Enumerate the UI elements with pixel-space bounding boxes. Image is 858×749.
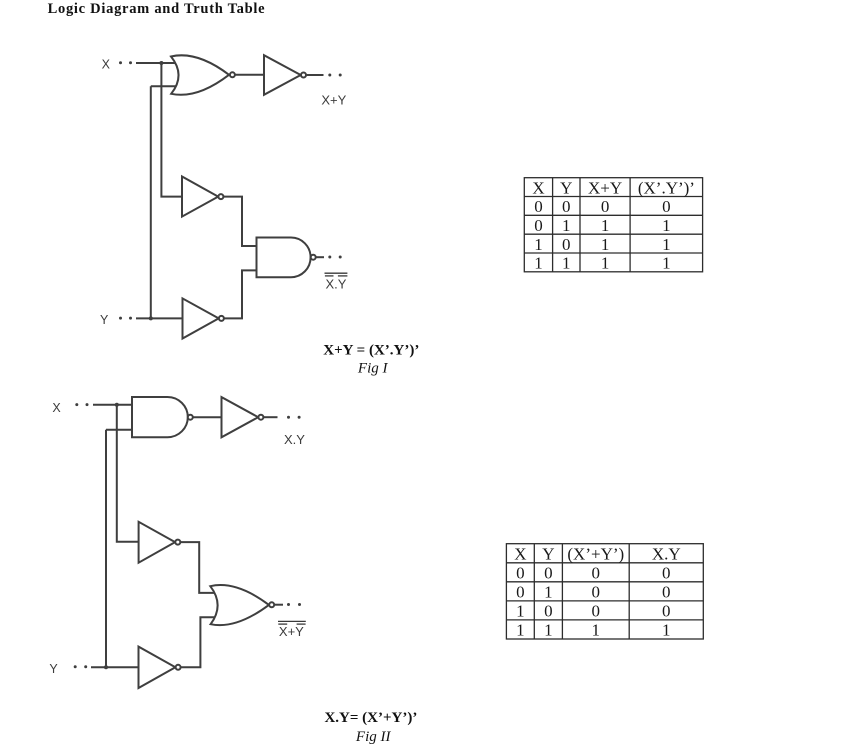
svg-text:0: 0 <box>601 197 610 216</box>
wire inverter U4 output to NAND bottom input <box>224 270 256 318</box>
junction Y Fig I <box>149 316 153 320</box>
input dots Y Fig I <box>119 317 122 320</box>
wire NOR lower input horizontal <box>151 85 179 87</box>
svg-text:0: 0 <box>662 583 671 602</box>
svg-text:Y: Y <box>49 662 58 676</box>
svg-text:1: 1 <box>562 254 571 273</box>
wire NOR2 output <box>274 604 283 606</box>
bubble U7 <box>175 540 180 545</box>
junction X/NOR Fig I <box>159 61 163 65</box>
wire Y to NOR vertical <box>150 86 152 318</box>
inverter U4 (bottom Fig I) <box>183 298 219 338</box>
svg-text:1: 1 <box>534 254 543 273</box>
svg-text:1: 1 <box>601 254 610 273</box>
NAND gate G2 <box>257 238 311 278</box>
svg-text:1: 1 <box>544 583 553 602</box>
wire inverter U6 output <box>264 416 278 418</box>
wire Y input Fig I <box>136 317 183 319</box>
NAND gate G3 (Fig II) <box>132 397 188 437</box>
svg-text:X+Y: X+Y <box>279 624 304 639</box>
wire X branch to inverter U7 <box>117 405 139 542</box>
output dots X.Y Fig II <box>287 416 290 419</box>
svg-text:0: 0 <box>592 602 601 621</box>
bubble G1 <box>230 72 235 77</box>
svg-text:1: 1 <box>544 621 553 640</box>
wire Y input Fig II <box>91 666 139 668</box>
wire inverter U7 output to NOR2 top input <box>181 542 215 593</box>
svg-text:1: 1 <box>516 621 525 640</box>
truth table 1 text <box>532 178 695 272</box>
inverter U3 (top Fig I) <box>264 55 301 95</box>
truth table 2 text <box>514 544 680 639</box>
svg-text:X+Y = (X’.Y’)’: X+Y = (X’.Y’)’ <box>323 343 419 359</box>
output dots X+Y <box>328 74 331 77</box>
truth table 2 grid <box>506 544 703 639</box>
wire NAND output <box>316 256 324 258</box>
svg-text:0: 0 <box>662 563 671 582</box>
input dots Y Fig II <box>74 665 77 668</box>
svg-text:0: 0 <box>562 197 571 216</box>
svg-text:0: 0 <box>516 563 525 582</box>
wire NAND2 output to inverter U6 <box>193 416 222 418</box>
svg-text:1: 1 <box>601 235 610 254</box>
overline X bar Fig II label <box>278 623 287 625</box>
inverter U2 (middle Fig I) <box>182 177 218 217</box>
bubble U3 <box>301 73 306 78</box>
svg-text:Logic Diagram and Truth Table: Logic Diagram and Truth Table <box>48 1 266 17</box>
inverter U6 (top Fig II) <box>222 397 259 437</box>
svg-text:(X’+Y’): (X’+Y’) <box>567 544 624 563</box>
svg-text:X: X <box>514 544 526 563</box>
overline Y bar Fig I label <box>338 275 348 277</box>
svg-text:X.Y= (X’+Y’)’: X.Y= (X’+Y’)’ <box>324 710 417 726</box>
svg-text:1: 1 <box>534 235 543 254</box>
bubble G2 <box>311 255 316 260</box>
wire inverter U8 output to NOR2 bottom input <box>181 617 214 667</box>
svg-text:1: 1 <box>662 216 671 235</box>
wire X branch to inverter U2 <box>161 63 182 197</box>
svg-text:1: 1 <box>516 602 525 621</box>
svg-text:1: 1 <box>562 216 571 235</box>
overline full bar Fig I label <box>325 272 348 274</box>
wire Y to NAND2 vertical <box>105 430 107 668</box>
junction Y Fig II <box>104 665 108 669</box>
svg-text:X+Y: X+Y <box>321 92 346 107</box>
bubble G4 <box>269 602 274 607</box>
wire X input Fig II <box>93 404 132 406</box>
input dots X Fig II <box>75 403 78 406</box>
output dots NOR Fig II <box>287 603 290 606</box>
inverter U7 (middle Fig II) <box>139 522 176 563</box>
svg-text:0: 0 <box>662 197 671 216</box>
bubble U2 <box>218 194 223 199</box>
bubble U6 <box>258 415 263 420</box>
svg-text:0: 0 <box>534 197 543 216</box>
inverter U8 (bottom Fig II) <box>139 647 176 688</box>
wire NOR output to inverter U3 <box>235 74 264 76</box>
junction X Fig II <box>115 403 119 407</box>
overline full bar Fig II label <box>278 620 306 622</box>
svg-text:X: X <box>52 401 61 415</box>
svg-text:0: 0 <box>562 235 571 254</box>
svg-text:1: 1 <box>662 254 671 273</box>
svg-text:0: 0 <box>592 583 601 602</box>
overline Y bar Fig II label <box>297 623 306 625</box>
svg-text:0: 0 <box>534 216 543 235</box>
svg-text:Y: Y <box>542 544 554 563</box>
svg-text:X: X <box>532 178 544 197</box>
svg-text:X.Y: X.Y <box>284 432 305 447</box>
svg-text:Y: Y <box>560 178 572 197</box>
wire X input Fig I <box>136 62 179 64</box>
svg-text:(X’.Y’)’: (X’.Y’)’ <box>638 178 695 197</box>
bubble G3 <box>188 415 193 420</box>
wire inverter U3 output <box>307 74 324 76</box>
svg-text:0: 0 <box>544 563 553 582</box>
svg-text:1: 1 <box>601 216 610 235</box>
NOR gate G1 <box>171 55 229 94</box>
svg-text:1: 1 <box>592 621 601 640</box>
svg-text:Fig II: Fig II <box>355 729 392 745</box>
svg-text:0: 0 <box>662 602 671 621</box>
output dots NAND Fig I <box>328 256 331 259</box>
bubble U4 <box>219 316 224 321</box>
svg-text:1: 1 <box>662 235 671 254</box>
svg-text:X: X <box>102 58 111 72</box>
svg-text:Y: Y <box>100 313 109 327</box>
wire NAND2 lower input horizontal <box>106 429 132 431</box>
svg-text:X.Y: X.Y <box>652 544 681 563</box>
svg-text:0: 0 <box>516 583 525 602</box>
NOR gate G4 (Fig II) <box>210 585 269 625</box>
svg-text:X+Y: X+Y <box>588 178 622 197</box>
svg-text:0: 0 <box>544 602 553 621</box>
truth table 1 grid <box>524 178 702 272</box>
bubble U8 <box>176 665 181 670</box>
overline X bar Fig I label <box>325 275 334 277</box>
wire inverter U2 output to NAND top input <box>224 197 257 246</box>
svg-text:1: 1 <box>662 621 671 640</box>
input dots X Fig I <box>119 61 122 64</box>
svg-text:0: 0 <box>592 563 601 582</box>
svg-text:Fig I: Fig I <box>357 361 389 377</box>
svg-text:X.Y: X.Y <box>326 277 347 292</box>
